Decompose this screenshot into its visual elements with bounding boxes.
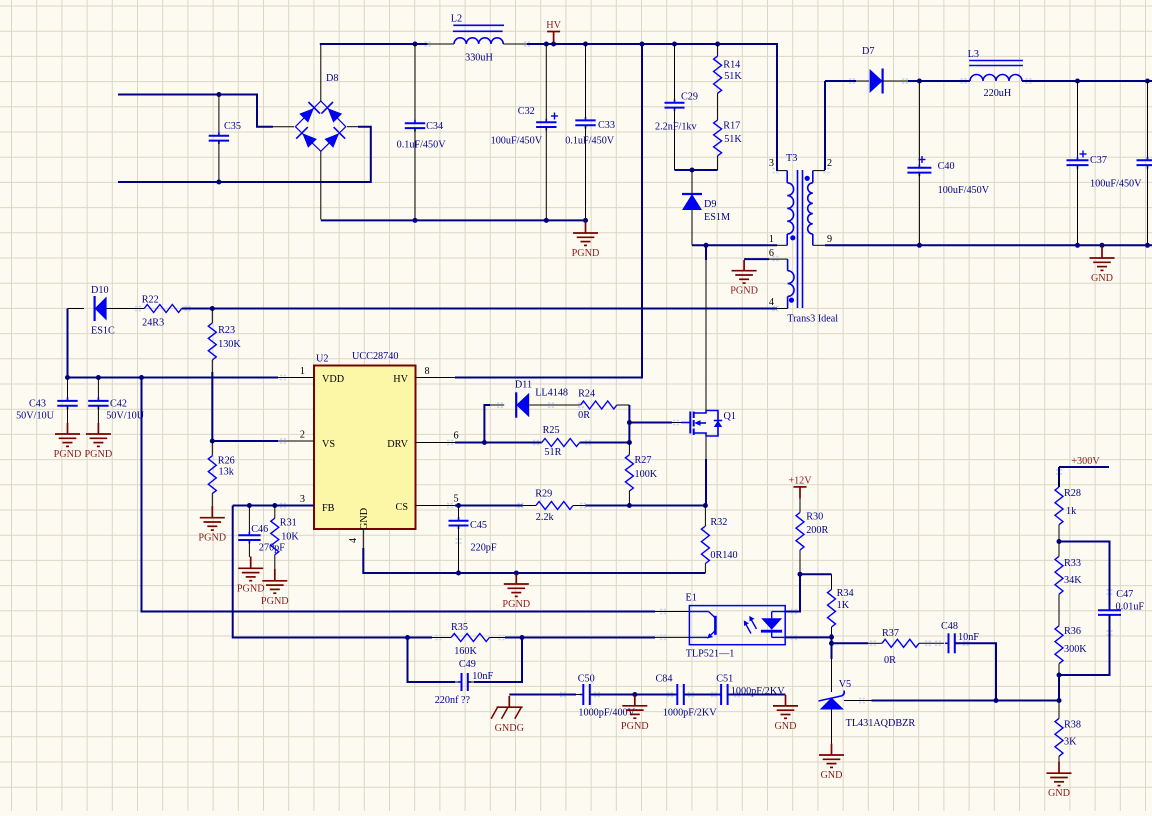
wire C29/R17 bottom link — [675, 169, 718, 171]
svg-text:R33: R33 — [1064, 558, 1081, 569]
svg-text:3: 3 — [769, 158, 774, 169]
node R35 right junction — [520, 635, 525, 640]
svg-text:C51: C51 — [716, 674, 733, 685]
svg-text:100uF/450V: 100uF/450V — [491, 135, 543, 146]
resistor R29 — [535, 489, 585, 524]
label U2 pin VDD — [322, 374, 344, 385]
wire T3 pin 2 riser — [0, 0, 1, 1]
wire CS net — [455, 505, 536, 507]
node R23 top junction — [210, 306, 215, 311]
ground PGND (Y-cap chain) — [621, 695, 649, 732]
wire HV pin8 riser — [455, 44, 642, 378]
capacitor C51 — [716, 674, 785, 706]
svg-text:PGND: PGND — [261, 596, 289, 607]
wire E1 collector pin stub — [655, 611, 689, 613]
svg-text:TLP521—1: TLP521—1 — [686, 649, 735, 660]
capacitor C43 — [16, 378, 78, 424]
svg-text:R35: R35 — [451, 622, 468, 633]
node C40 bottom junction — [917, 243, 922, 248]
svg-text:C42: C42 — [110, 399, 127, 410]
pin U2-8 HV — [416, 366, 456, 378]
wire C51 to GND — [728, 694, 786, 696]
diode D11 LL4148 — [490, 379, 581, 417]
node C48/ref junction — [994, 698, 999, 703]
wire D11 branch riser — [484, 405, 490, 443]
hotspot markers — [135, 41, 1113, 703]
node C33 bottom / PGND junction — [583, 218, 588, 223]
node HV stem junction — [551, 42, 556, 47]
pin U2-4 GND — [348, 529, 363, 548]
capacitor C45 — [449, 506, 497, 574]
svg-text:DRV: DRV — [387, 439, 408, 450]
wire R37 branch — [832, 642, 883, 644]
wire D7 to L3 — [908, 80, 970, 82]
wire DRV to R25 — [484, 442, 541, 444]
capacitor C48 — [941, 621, 979, 653]
svg-text:R32: R32 — [710, 517, 727, 528]
wire PGND node to C84 — [635, 694, 678, 696]
svg-text:0.1uF/450V: 0.1uF/450V — [565, 135, 615, 146]
label T3 — [786, 153, 797, 164]
svg-text:PGND: PGND — [198, 533, 226, 544]
label U2 pin DRV — [387, 439, 408, 450]
wire C48 to ref node — [955, 643, 996, 700]
node C37 top junction — [1075, 79, 1080, 84]
svg-text:R30: R30 — [806, 511, 823, 522]
capacitor C49 — [408, 638, 523, 692]
transformer T3 aux winding — [769, 259, 794, 308]
capacitor C40 (polarized) — [907, 81, 989, 245]
wire R22 to node — [182, 308, 213, 310]
label TLP521-1 — [686, 649, 735, 660]
node C34 bottom junction — [413, 218, 418, 223]
svg-text:C46: C46 — [251, 524, 268, 535]
svg-text:R31: R31 — [280, 518, 297, 529]
svg-text:1k: 1k — [1066, 506, 1077, 517]
svg-text:PGND: PGND — [502, 599, 530, 610]
wire V5 ref — [844, 700, 996, 702]
wire AC line 2 pin stub to bridge — [347, 126, 358, 128]
transistor Q1 (N-MOSFET) — [681, 411, 722, 437]
pin U2-6 DRV — [416, 431, 459, 443]
ground PGND (R26) — [198, 506, 226, 544]
wire C47 top branch — [1059, 542, 1110, 611]
svg-text:R34: R34 — [837, 588, 854, 599]
label T3 pin 4 — [769, 297, 774, 308]
svg-text:C43: C43 — [29, 399, 46, 410]
resistor R32 — [701, 506, 737, 574]
wire DRV net — [455, 442, 484, 444]
label U2 pin CS — [396, 502, 409, 513]
wire VDD rail — [68, 377, 279, 379]
svg-text:GND: GND — [1091, 273, 1113, 284]
svg-text:R27: R27 — [635, 455, 652, 466]
svg-text:220uH: 220uH — [984, 88, 1012, 99]
resistor R38 — [1055, 701, 1081, 762]
optocoupler E1 phototransistor — [689, 612, 715, 639]
power port +300V wire — [1059, 456, 1109, 467]
node C34 top junction — [413, 42, 418, 47]
wire E1 LED cathode to node — [785, 636, 831, 638]
node HV riser junction — [640, 42, 645, 47]
svg-text:330uH: 330uH — [465, 53, 493, 64]
resistor R23 — [208, 309, 241, 373]
svg-text:C40: C40 — [938, 161, 955, 172]
wire R36 to ref node — [1058, 675, 1060, 701]
transformer T3 primary polarity dot — [790, 235, 795, 240]
wire L3 to right edge — [1022, 80, 1152, 82]
svg-text:2.2nF/1kv: 2.2nF/1kv — [655, 122, 698, 133]
svg-text:GND: GND — [820, 770, 842, 781]
node C32 top junction — [544, 42, 549, 47]
ground PGND (C46) — [237, 557, 265, 595]
svg-text:U2: U2 — [316, 354, 328, 365]
transformer T3 core — [798, 170, 803, 308]
wire V5 anode to GND — [831, 710, 833, 744]
label Q1 — [724, 411, 736, 422]
node C46 junction — [247, 503, 252, 508]
wire AC line 1 pin stub to bridge — [273, 126, 294, 128]
capacitor C47 — [1098, 589, 1144, 618]
svg-text:24R3: 24R3 — [142, 318, 164, 329]
inductor L3 — [968, 49, 1023, 99]
svg-text:PGND: PGND — [621, 721, 649, 732]
node C37 bottom junction — [1075, 243, 1080, 248]
optocoupler E1 LED — [761, 612, 785, 638]
capacitor C35 — [209, 96, 241, 181]
svg-text:160K: 160K — [454, 646, 477, 657]
svg-text:1000pF/2KV: 1000pF/2KV — [663, 708, 717, 719]
svg-text:R29: R29 — [535, 489, 552, 500]
svg-text:D10: D10 — [91, 285, 109, 296]
label T3 pin 6 — [769, 248, 774, 259]
ground PGND (aux winding) — [730, 260, 758, 297]
svg-text:HV: HV — [393, 374, 408, 385]
capacitor C33 — [565, 44, 615, 220]
svg-text:C50: C50 — [578, 674, 595, 685]
resistor R37 — [882, 628, 919, 666]
node C32 bottom junction — [544, 218, 549, 223]
optocoupler E1 box — [689, 606, 785, 645]
wire bridge top stub — [320, 45, 322, 101]
svg-text:R24: R24 — [578, 389, 595, 400]
node far-right cap top junction — [1145, 79, 1150, 84]
svg-text:C29: C29 — [681, 92, 698, 103]
wire T3 pin 4 net (to R22/R23 node) — [212, 308, 777, 310]
svg-text:R14: R14 — [723, 60, 740, 71]
label T3 pin 9 — [827, 234, 832, 245]
wire GND pin4 net — [363, 548, 705, 573]
label T3 pin 2 — [827, 158, 832, 169]
svg-text:PGND: PGND — [237, 583, 265, 594]
svg-text:130K: 130K — [218, 339, 241, 350]
resistor R24 — [578, 389, 617, 422]
wire gate node to R25 node — [628, 423, 630, 443]
svg-text:0.01uF: 0.01uF — [1116, 602, 1145, 613]
resistor R35 — [408, 622, 506, 657]
wire C84 to C51 — [684, 694, 721, 696]
capacitor C46 — [238, 506, 285, 557]
node D9 top junction — [690, 168, 695, 173]
svg-text:D7: D7 — [862, 46, 874, 57]
wire D9 to T3 pin 1 — [692, 244, 777, 246]
svg-text:CS: CS — [396, 502, 409, 513]
svg-text:9: 9 — [827, 234, 832, 245]
svg-text:FB: FB — [322, 503, 335, 514]
svg-text:+12V: +12V — [788, 475, 812, 486]
svg-text:100uF/450V: 100uF/450V — [1090, 179, 1142, 190]
ground PGND (R31) — [261, 569, 289, 607]
svg-text:GND: GND — [1048, 788, 1070, 799]
node R27 bottom junction — [627, 503, 632, 508]
node AC2-C35 junction — [216, 180, 221, 185]
svg-text:+300V: +300V — [1071, 456, 1100, 467]
diode D7 — [870, 69, 908, 94]
wire R37 to C48 — [919, 642, 944, 644]
svg-text:VDD: VDD — [322, 374, 344, 385]
svg-text:Trans3 Ideal: Trans3 Ideal — [787, 313, 838, 324]
svg-text:C45: C45 — [470, 520, 487, 531]
svg-text:C47: C47 — [1116, 589, 1133, 600]
svg-text:220pF: 220pF — [471, 543, 497, 554]
svg-text:0R: 0R — [884, 655, 896, 666]
wire R30 node to E1 LED anode — [785, 574, 800, 611]
svg-text:HV: HV — [546, 20, 561, 31]
svg-text:5: 5 — [453, 494, 458, 505]
node E1 cathode junction — [829, 635, 834, 640]
svg-text:R22: R22 — [142, 295, 159, 306]
resistor R14 — [714, 44, 743, 120]
wire C47 bottom branch — [1059, 615, 1110, 675]
label D7 — [862, 46, 874, 57]
ground GND (output rail) — [1090, 246, 1115, 284]
svg-text:300K: 300K — [1064, 644, 1087, 655]
wire HV rail (L2 to T3 pin 3) — [527, 44, 777, 171]
wire output bottom rail — [825, 244, 1152, 246]
svg-text:6: 6 — [453, 431, 458, 442]
node R14 top junction — [715, 42, 720, 47]
svg-text:E1: E1 — [686, 593, 697, 604]
svg-text:0.1uF/450V: 0.1uF/450V — [397, 140, 447, 151]
wire L2 left lead — [428, 43, 454, 45]
resistor R26 — [208, 441, 234, 506]
svg-text:10nF: 10nF — [958, 632, 979, 643]
svg-text:10nF: 10nF — [472, 671, 493, 682]
svg-text:C48: C48 — [941, 621, 958, 632]
wire AC line 1 (top-left) — [118, 95, 273, 127]
capacitor C37 (polarized) — [1067, 81, 1143, 245]
svg-text:1: 1 — [769, 234, 774, 245]
node E1 riser junction — [139, 375, 144, 380]
node C33 top junction — [583, 42, 588, 47]
wire R34 bottom to V5 top — [831, 634, 833, 643]
svg-text:10K: 10K — [281, 532, 299, 543]
svg-text:D9: D9 — [704, 199, 716, 210]
resistor R36 — [1055, 626, 1087, 675]
transistor V5 TL431 — [819, 691, 845, 710]
node C29 top junction — [672, 42, 677, 47]
svg-text:D11: D11 — [515, 379, 532, 390]
svg-text:C32: C32 — [518, 106, 535, 117]
svg-text:1K: 1K — [837, 600, 850, 611]
ground GND (R38) — [1047, 761, 1072, 799]
wire HV rail (bridge to L2) — [320, 43, 428, 45]
op-amp U2 UCC28740 body — [314, 366, 416, 530]
node R30 bottom junction — [798, 572, 803, 577]
label UCC28740 — [352, 351, 398, 362]
svg-text:LL4148: LL4148 — [535, 388, 568, 399]
svg-text:2.2k: 2.2k — [536, 512, 555, 523]
node PGND junction (pin4 net) — [514, 571, 519, 576]
node R28/R33/C47 junction — [1057, 539, 1062, 544]
svg-text:ES1C: ES1C — [91, 326, 115, 337]
svg-text:51K: 51K — [724, 134, 742, 145]
resistor R31 — [271, 506, 300, 570]
wire R27node to R32 node — [629, 505, 705, 507]
svg-text:100K: 100K — [635, 469, 658, 480]
transformer T3 primary winding — [776, 171, 794, 246]
svg-text:TL431AQDBZR: TL431AQDBZR — [846, 718, 916, 729]
label 220nf ?? — [435, 695, 471, 706]
svg-text:D8: D8 — [326, 73, 338, 84]
svg-text:6: 6 — [769, 248, 774, 259]
svg-text:0R140: 0R140 — [710, 550, 737, 561]
label U2 pin HV — [393, 374, 408, 385]
transformer T3 aux polarity dot — [789, 298, 794, 303]
label U2 pin GND — [359, 508, 370, 530]
label U2 pin FB — [322, 503, 335, 514]
resistor R33 — [1055, 542, 1082, 626]
diode bridge D8 — [295, 101, 345, 151]
wire T3 pin2 to D7 — [825, 81, 869, 170]
node R35 left junction — [405, 635, 410, 640]
wire R30 node to R34 — [800, 573, 832, 575]
label V5 — [839, 679, 851, 690]
resistor R27 — [625, 443, 657, 506]
wire L2 right lead — [503, 43, 527, 45]
pin U2-3 FB — [278, 494, 314, 506]
transformer T3 secondary polarity dot — [805, 176, 810, 181]
wire R29 to R27 node — [585, 505, 629, 507]
wire VDD riser to E1 — [142, 378, 656, 612]
svg-text:C33: C33 — [598, 120, 615, 131]
svg-text:R17: R17 — [723, 120, 740, 131]
wire VS net — [212, 440, 278, 442]
capacitor C84 — [656, 674, 718, 719]
wire FB net — [233, 505, 314, 507]
capacitor far-right (clipped) — [1137, 81, 1152, 245]
svg-text:C35: C35 — [224, 121, 241, 132]
svg-text:R37: R37 — [882, 628, 899, 639]
node far-right cap bottom junction — [1145, 243, 1150, 248]
svg-text:PGND: PGND — [85, 449, 113, 460]
svg-text:C84: C84 — [656, 674, 673, 685]
resistor R22 — [142, 295, 182, 329]
svg-text:220nf ??: 220nf ?? — [435, 695, 471, 706]
svg-text:C34: C34 — [426, 121, 443, 132]
label E1 — [686, 593, 697, 604]
svg-text:V5: V5 — [839, 679, 851, 690]
svg-text:C37: C37 — [1090, 155, 1107, 166]
wire AC line 2 (bottom-left) — [118, 127, 371, 182]
node C50/C84/PGND junction — [632, 692, 637, 697]
resistor R25 — [542, 425, 580, 458]
svg-text:100uF/450V: 100uF/450V — [938, 185, 990, 196]
wire Q1 gate wire — [629, 422, 681, 424]
node D11 branch junction — [482, 440, 487, 445]
wire Q1 source wire — [705, 436, 707, 506]
wire Q1 drain wire — [705, 245, 707, 410]
wire ref node to divider — [996, 700, 1059, 702]
svg-text:2: 2 — [827, 158, 832, 169]
svg-text:200R: 200R — [806, 525, 828, 536]
svg-text:GND: GND — [359, 508, 370, 530]
svg-text:34K: 34K — [1064, 575, 1082, 586]
node Q1 gate junction — [627, 420, 632, 425]
svg-text:51R: 51R — [544, 447, 561, 458]
pin U2-2 VS — [278, 430, 314, 442]
label T3 pin 3 — [769, 158, 774, 169]
node R37 junction — [829, 641, 834, 646]
svg-text:R28: R28 — [1064, 488, 1081, 499]
label Trans3 Ideal — [787, 313, 838, 324]
node Q1 drain junction — [704, 243, 709, 248]
wire D10 to R22 — [120, 308, 144, 310]
wire GNDG to C50 — [509, 694, 583, 696]
svg-text:3: 3 — [300, 494, 305, 505]
ground PGND (input rail) — [572, 222, 600, 260]
svg-text:VS: VS — [322, 439, 335, 450]
ground PGND (pin4 net) — [502, 574, 530, 610]
svg-text:13k: 13k — [219, 466, 235, 477]
wire bridge bottom stub — [320, 151, 322, 219]
power port +12V — [788, 475, 812, 498]
svg-text:4: 4 — [348, 538, 359, 543]
node R32 top junction — [703, 503, 708, 508]
node divider/R38 junction — [1057, 698, 1062, 703]
resistor R28 — [1055, 477, 1081, 542]
svg-text:R23: R23 — [218, 325, 235, 336]
svg-text:GND: GND — [774, 721, 796, 732]
diode D10 — [68, 285, 121, 337]
label U2 pin VS — [322, 439, 335, 450]
svg-text:ES1M: ES1M — [704, 212, 730, 223]
label D8 — [326, 73, 338, 84]
capacitor C32 (polarized) — [491, 44, 558, 220]
wire FB riser to R35/C49 — [233, 506, 408, 638]
svg-text:0R: 0R — [578, 410, 590, 421]
svg-text:50V/10U: 50V/10U — [106, 411, 145, 422]
node VS junction — [210, 439, 215, 444]
diode D9 — [682, 170, 730, 245]
wire R23 to VS node — [211, 372, 213, 441]
power port HV — [546, 20, 561, 43]
svg-text:3K: 3K — [1064, 737, 1077, 748]
svg-text:1: 1 — [300, 366, 305, 377]
pin U2-1 VDD — [278, 366, 314, 378]
transformer T3 secondary winding — [808, 171, 825, 246]
svg-text:R26: R26 — [218, 456, 235, 467]
svg-text:50V/10U: 50V/10U — [16, 411, 55, 422]
node C42 junction — [96, 375, 101, 380]
resistor R34 — [828, 574, 854, 636]
capacitor C42 — [88, 378, 145, 424]
svg-text:UCC28740: UCC28740 — [352, 351, 398, 362]
node C45 top junction — [456, 503, 461, 508]
node GND junction (output) — [1100, 243, 1105, 248]
svg-text:PGND: PGND — [730, 286, 758, 297]
ground PGND (C42) — [85, 423, 113, 460]
